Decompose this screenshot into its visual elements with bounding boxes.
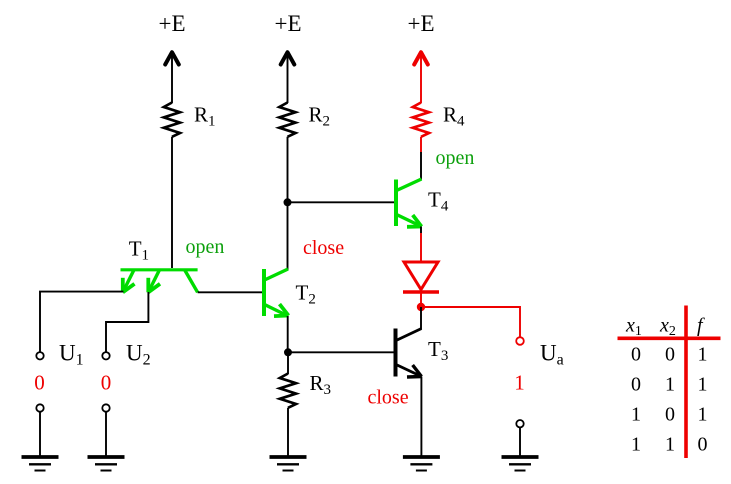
svg-text:open: open [436,147,475,169]
wire junction to T4 base [288,201,395,203]
ground (output) [502,457,539,471]
svg-text:0: 0 [665,344,675,366]
svg-text:0: 0 [631,344,641,366]
ground (R3) [270,457,307,471]
svg-text:open: open [186,236,225,258]
transistor T4 (green) [396,179,422,227]
svg-text:0: 0 [698,434,708,456]
node output junction dot (red) [417,303,425,311]
svg-text:0: 0 [34,371,45,395]
wire output (red) [421,307,520,337]
terminal circle U2 [102,352,109,359]
svg-text:1: 1 [698,344,708,366]
wire T4 emitter black stub [420,227,422,234]
svg-text:1: 1 [631,434,641,456]
wire input 2 [106,292,148,352]
wire R1 to T1 base [171,137,173,268]
svg-text:+E: +E [274,11,301,36]
wire supply arrow 3 (red) [414,52,428,64]
transistor T3 (black) [396,329,422,377]
svg-text:0: 0 [101,371,112,395]
wire red to diode [420,233,422,262]
node junction dot R2/T4 base [284,198,292,206]
resistor R4 (red) [413,103,429,137]
transistor T2 (green) [264,269,288,316]
svg-text:close: close [303,237,344,259]
svg-text:0: 0 [665,404,675,426]
svg-text:1: 1 [514,371,525,395]
wire junction to T3 base [288,351,394,353]
svg-text:+E: +E [407,11,434,36]
ground (input 1) [22,457,59,471]
wire R3 to ground [287,408,289,456]
wire junction to R3 [287,352,289,374]
arrowhead emitter2 T1 [148,278,160,293]
terminal circle Ua (red) [516,337,524,345]
terminal circle U1 [36,352,43,359]
truth table horizontal line (red) [618,336,721,340]
resistor R3 [280,374,296,408]
svg-text:+E: +E [158,11,185,36]
svg-text:close: close [368,387,409,409]
wire T1 collector to T2 base [198,291,262,293]
terminal circle ground stub 2 [102,404,109,411]
wire supply arrow 2 [281,52,295,64]
svg-text:1: 1 [698,404,708,426]
arrowhead emitter1 T1 [123,278,135,293]
ground (T3) [403,457,440,471]
transistor T1 (green, dual emitter) [121,270,198,293]
terminal circle ground stub 1 [36,404,43,411]
ground (input 2) [88,457,125,471]
wire black segment to T4 collector [420,152,422,180]
wire supply arrow 1 [165,52,179,64]
diode D (red) [404,262,438,290]
resistor R2 [279,103,295,137]
wire dot to T3 collector [420,307,422,329]
node junction dot (T2 emitter / R3 / T3 base) [284,348,292,356]
wire R2 down to T2 collector [287,137,289,270]
wire T2 emitter down to junction [287,316,289,352]
wire input 1 [40,292,123,352]
terminal circle ground stub output [516,420,523,427]
truth table vertical line (red) [684,306,688,459]
wire T3 emitter to ground [420,377,422,456]
svg-text:1: 1 [698,374,708,396]
svg-text:0: 0 [631,374,641,396]
svg-text:1: 1 [631,404,641,426]
svg-text:1: 1 [665,434,675,456]
svg-text:1: 1 [665,374,675,396]
resistor R1 [164,103,180,137]
wire R4 red segment [420,137,422,152]
